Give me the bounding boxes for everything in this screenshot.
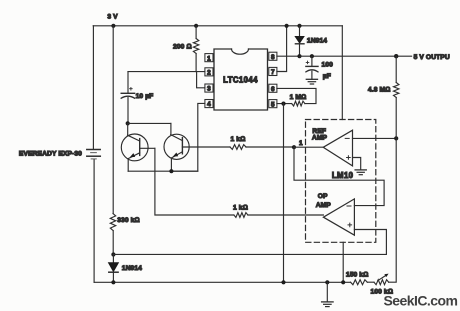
svg-text:1N914: 1N914 [307,38,327,45]
svg-text:5: 5 [271,101,275,108]
pin 5 [269,100,277,109]
pin 2 [205,68,213,77]
wire LM10 V+ [341,26,343,120]
dashed box LM10 [306,120,376,243]
wire pin5 to 1M [277,103,292,105]
pin 4 [205,100,213,109]
svg-text:1: 1 [299,140,303,147]
wire top 3V rail [93,25,342,27]
svg-text:200 Ω: 200 Ω [173,43,192,50]
resistor R 200 Ω [193,26,198,72]
node dot cap top [310,54,314,58]
wire 330k lower [112,231,114,255]
wire LM10 Vminus [342,242,344,282]
wire pin5 feedback drop [283,104,285,283]
wire pin6 loop [277,88,316,103]
node dot REF output [292,145,296,149]
op-amp OP A2 [323,199,354,235]
svg-text:10 µF: 10 µF [136,93,154,100]
pin 8 [269,52,277,61]
ground G2 REF [355,170,366,175]
node dot diode bottom rail [111,280,115,284]
node dot pin5 ground rail [281,280,285,284]
svg-text:SeekIC.com: SeekIC.com [384,293,458,309]
op-amp REF A1 [323,130,352,166]
resistor R 1 kΩ lower [234,213,248,218]
svg-text:AMP: AMP [312,135,328,142]
wire right rail upper [395,56,397,82]
resistor R 1 kΩ upper [230,145,246,150]
resistor R 4.8 MΩ [394,83,399,98]
svg-text:4.8 MΩ: 4.8 MΩ [368,87,390,94]
node dot collector net [126,121,130,125]
svg-text:3: 3 [207,86,211,93]
potentiometer R 100 kΩ [374,274,389,285]
node dot 3V [111,24,115,28]
svg-text:1 kΩ: 1 kΩ [233,204,248,211]
node dot LM10 Vminus rail [341,280,345,284]
wire REF plus to ground [353,158,361,170]
node dot 5V out [394,54,398,58]
pin 7 [269,67,277,76]
svg-text:OP: OP [318,193,328,200]
wire 330k branch upper [112,26,114,214]
svg-text:LTC1044: LTC1044 [223,76,258,85]
node dot diode rail [297,24,301,28]
node dot pin5 [281,102,285,106]
IC U1 LTC1044 body [214,49,268,110]
svg-text:2: 2 [207,70,211,77]
wire 5V output line [300,55,412,57]
battery B1 EVEREADY EXP-30 [87,150,101,159]
wire pin8 to diode node [277,55,300,57]
svg-text:150 kΩ: 150 kΩ [346,272,368,279]
svg-text:1: 1 [207,55,211,62]
diode D1 1N914 [295,26,304,56]
wire pin3 up-link [197,72,205,88]
capacitor C2 100 µF [306,56,318,79]
svg-text:6: 6 [271,86,275,93]
wire battery top lead [92,26,94,150]
node dot emitter net [169,169,173,173]
pin 1 [205,54,213,63]
wire battery bottom lead [93,160,95,282]
transistor Q2 [164,123,189,171]
wire OP plus to sense line [114,230,387,255]
wire lower 1k to OP amp input [248,214,324,216]
svg-text:8: 8 [271,54,275,61]
pin 6 [269,84,277,93]
wire ground stub [326,282,328,302]
wire upper 1k to REF node [246,146,294,148]
svg-text:7: 7 [271,69,275,76]
resistor R 330 kΩ [110,214,115,231]
wire pin7 to rail [277,26,287,72]
transistor Q1 [121,123,155,171]
wire right rail lower [389,98,397,283]
diode D2 1N914 [108,255,118,283]
wire REF output to amp [294,146,323,148]
capacitor C1 10 µF [121,72,134,124]
ground G1 cap [306,79,317,84]
wire collector net to T2 [128,122,171,124]
wire Q2 base to upper 1k [182,146,230,148]
wire pin2 to cap node [128,71,205,73]
svg-text:3 V: 3 V [107,14,118,21]
svg-text:4: 4 [207,101,211,108]
svg-text:330 kΩ: 330 kΩ [117,217,139,224]
svg-text:100: 100 [322,62,334,69]
wire emitter bottom link [128,170,198,172]
node dot REF minus [394,136,398,140]
wire REF minus to right rail [353,137,397,139]
wire feedback REF node to OP minus [294,147,384,205]
svg-text:5 V OUTPU: 5 V OUTPU [414,54,450,61]
node dot diode output [297,54,301,58]
wire Q1 base to lower 1k [155,148,234,215]
resistor R 150 kΩ [351,280,368,285]
svg-text:AMP: AMP [316,202,332,209]
wire bottom ground rail [94,281,350,283]
node dot ground stub [325,280,329,284]
svg-text:EVEREADY EXP-30: EVEREADY EXP-30 [19,151,82,158]
svg-text:µF: µF [323,73,331,80]
svg-text:1N914: 1N914 [122,265,142,272]
node dot 200R top [194,24,198,28]
svg-text:1 kΩ: 1 kΩ [231,136,246,143]
svg-text:LM10: LM10 [332,171,354,180]
resistor R 1 MΩ [292,101,305,106]
wire pin4 down-link [171,103,205,171]
node dot diode top [111,252,115,256]
ground G3 rail [322,302,334,307]
wire between 150k and pot [367,281,374,283]
node dot pin7 rail [285,24,289,28]
pin 3 [205,84,213,93]
svg-text:1 MΩ: 1 MΩ [290,94,307,101]
